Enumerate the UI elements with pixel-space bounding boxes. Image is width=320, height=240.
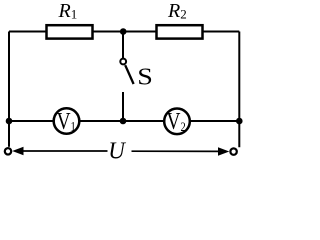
voltmeter V1 xyxy=(54,108,80,134)
svg-text:R2: R2 xyxy=(167,0,187,22)
resistor R1 xyxy=(47,25,93,38)
svg-text:U: U xyxy=(108,138,126,165)
switch S blade xyxy=(125,65,133,84)
voltmeter V2 xyxy=(164,109,190,135)
node junction right xyxy=(236,118,243,125)
node junction middle bottom xyxy=(120,118,127,125)
node junction left xyxy=(6,118,13,125)
switch S contact circle xyxy=(120,59,126,65)
wire voltmeter row xyxy=(9,120,239,122)
wire top rail xyxy=(9,31,239,33)
wire U arrow left xyxy=(22,150,108,152)
terminal right xyxy=(230,148,236,154)
resistor R2 xyxy=(157,25,203,38)
wire right vertical xyxy=(238,32,240,148)
wire left vertical xyxy=(8,32,10,147)
wire switch branch upper xyxy=(122,32,124,59)
wire U arrow right xyxy=(132,150,221,152)
terminal left xyxy=(5,148,11,154)
wire switch branch lower xyxy=(122,92,124,121)
svg-text:S: S xyxy=(137,63,153,90)
svg-text:R1: R1 xyxy=(58,0,78,22)
node junction top middle xyxy=(120,28,127,35)
